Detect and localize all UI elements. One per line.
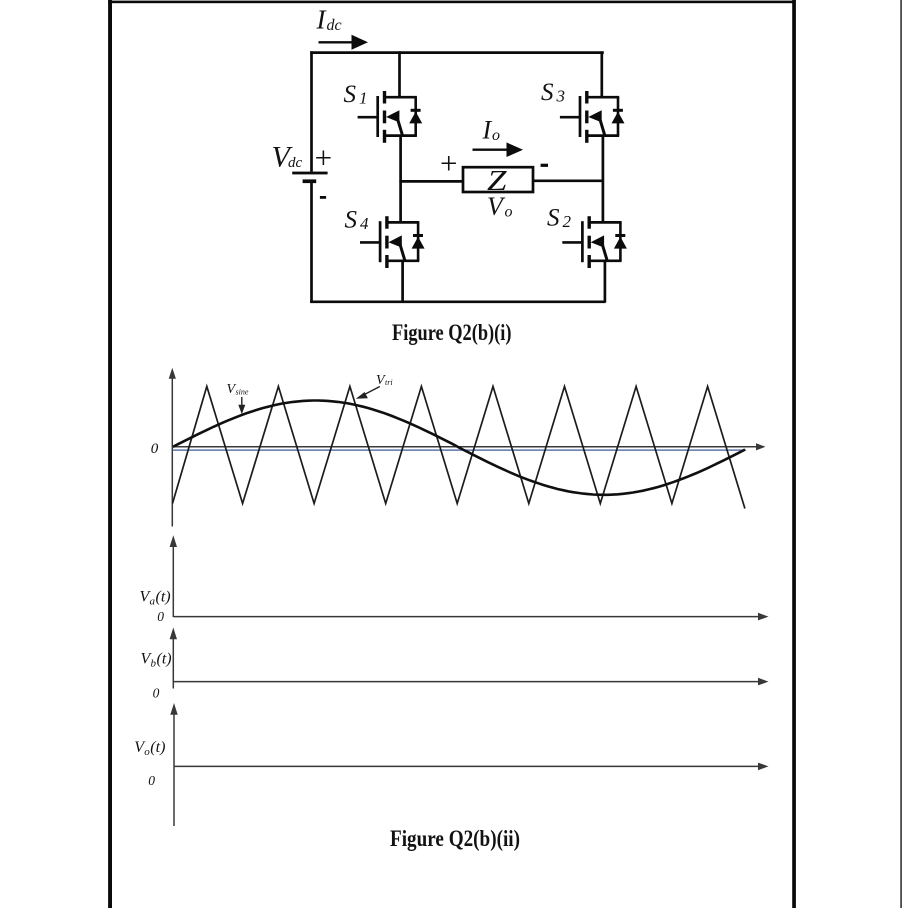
arrow from Vtri label to triangle bbox=[356, 387, 380, 399]
transistor S3 bbox=[560, 91, 625, 143]
svg-text:o: o bbox=[492, 127, 500, 144]
waveform Vo x-axis bbox=[174, 763, 769, 771]
waveform Va x-axis bbox=[173, 613, 768, 621]
svg-text:S: S bbox=[541, 79, 554, 106]
label - at load bbox=[541, 164, 548, 167]
waveform 1 blue reference line bbox=[173, 449, 746, 451]
label Vo bbox=[487, 192, 513, 221]
svg-text:3: 3 bbox=[556, 87, 566, 106]
waveform Vb x-axis bbox=[173, 678, 768, 686]
battery Vdc short plate bbox=[303, 179, 317, 183]
arrow Idc bbox=[319, 35, 369, 50]
svg-text:4: 4 bbox=[360, 214, 369, 233]
label Io bbox=[482, 115, 501, 144]
svg-text:(t): (t) bbox=[150, 739, 165, 756]
label Vo(t) bbox=[134, 739, 165, 758]
battery minus sign bbox=[320, 196, 326, 199]
svg-text:+: + bbox=[315, 140, 332, 175]
wire right leg middle (S3 source to S2 drain) bbox=[602, 135, 605, 224]
wire left leg middle (S1 source to S4 drain) bbox=[399, 135, 402, 224]
label S3 bbox=[541, 79, 565, 106]
svg-text:o: o bbox=[505, 204, 513, 221]
svg-text:0: 0 bbox=[153, 685, 160, 700]
wire load to node B (right leg) bbox=[533, 179, 604, 182]
label Vtri bbox=[376, 373, 393, 388]
waveform Vo y-axis bbox=[170, 703, 177, 826]
wire bottom bus bbox=[310, 300, 605, 303]
svg-text:0: 0 bbox=[151, 441, 159, 457]
waveform 1 y-axis bbox=[169, 368, 176, 527]
page frame right border bbox=[792, 0, 796, 908]
wire left leg lower (S4 source to bottom bus) bbox=[401, 260, 404, 303]
label S1 bbox=[344, 81, 368, 108]
wire right leg lower (S2 source to bottom bus) bbox=[604, 260, 607, 303]
svg-text:+: + bbox=[440, 146, 457, 181]
page frame left border bbox=[108, 0, 112, 908]
sine reference wave Vsine bbox=[173, 401, 745, 495]
arrow Io bbox=[473, 142, 524, 157]
label S4 bbox=[345, 207, 370, 234]
svg-text:S: S bbox=[547, 205, 560, 232]
svg-text:1: 1 bbox=[359, 88, 368, 107]
svg-text:(t): (t) bbox=[157, 651, 172, 668]
waveform Vb y-axis bbox=[170, 628, 177, 689]
svg-text:dc: dc bbox=[327, 17, 342, 34]
waveform Va y-axis bbox=[170, 535, 177, 617]
svg-text:S: S bbox=[344, 81, 357, 108]
label Vsine bbox=[227, 382, 249, 397]
wire output node A to load bbox=[399, 180, 463, 183]
transistor S4 bbox=[360, 216, 425, 268]
label S2 bbox=[547, 205, 572, 232]
triangle carrier wave Vtri bbox=[173, 386, 745, 508]
transistor S1 bbox=[358, 91, 423, 143]
svg-text:0: 0 bbox=[157, 609, 164, 624]
wire left rail lower bbox=[310, 183, 313, 304]
svg-text:(t): (t) bbox=[156, 588, 171, 605]
wire left leg upper (to S1 drain) bbox=[398, 51, 401, 98]
page frame top border bbox=[108, 1, 796, 4]
label Va(t) bbox=[140, 588, 171, 607]
wire left rail upper bbox=[310, 51, 313, 172]
wire top bus bbox=[310, 51, 604, 54]
arrow from Vsine label to sine bbox=[238, 397, 245, 414]
svg-text:0: 0 bbox=[148, 773, 155, 788]
svg-text:dc: dc bbox=[288, 155, 303, 171]
svg-text:Figure Q2(b)(ii): Figure Q2(b)(ii) bbox=[390, 826, 520, 851]
label Vdc bbox=[272, 140, 303, 173]
svg-text:S: S bbox=[345, 207, 358, 234]
svg-text:Figure Q2(b)(i): Figure Q2(b)(i) bbox=[392, 320, 512, 345]
load Z box bbox=[463, 167, 533, 192]
svg-text:2: 2 bbox=[563, 212, 572, 231]
svg-text:tri: tri bbox=[385, 378, 393, 387]
svg-text:sine: sine bbox=[236, 387, 249, 396]
wire right leg upper (to S3 drain) bbox=[600, 51, 603, 98]
scan edge line at far right bbox=[900, 0, 902, 908]
svg-text:I: I bbox=[482, 115, 493, 144]
battery Vdc long plate bbox=[292, 172, 327, 175]
waveform 1 x-axis bbox=[172, 443, 765, 450]
label Idc bbox=[316, 5, 342, 35]
transistor S2 bbox=[562, 216, 627, 268]
label Vb(t) bbox=[141, 651, 172, 670]
